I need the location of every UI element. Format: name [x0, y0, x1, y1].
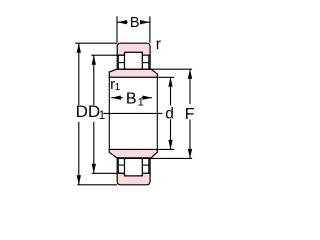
svg-text:B: B: [126, 91, 137, 108]
svg-text:1: 1: [99, 110, 105, 122]
svg-text:1: 1: [115, 82, 121, 93]
svg-text:B: B: [130, 15, 140, 31]
svg-text:D: D: [76, 102, 88, 121]
svg-text:1: 1: [138, 96, 144, 108]
svg-text:d: d: [165, 105, 174, 122]
svg-text:F: F: [185, 106, 195, 123]
svg-text:r: r: [156, 36, 161, 53]
